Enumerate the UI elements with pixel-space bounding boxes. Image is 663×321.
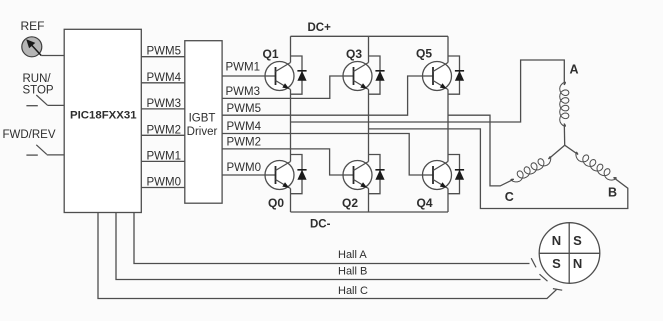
svg-text:PWM2: PWM2 [227, 137, 262, 149]
transistor Q1 [265, 62, 294, 91]
potentiometer REF [21, 19, 45, 57]
wire star point to coil B [565, 145, 578, 154]
wire PWM1 PIC to driver [141, 160, 185, 162]
winding phase A [560, 82, 569, 126]
wire leg 1 emitter bottom [290, 189, 292, 213]
svg-text:Hall B: Hall B [338, 265, 367, 277]
svg-text:Hall C: Hall C [338, 285, 368, 297]
wire PWM4 driver to Q4 gate [222, 134, 422, 176]
wire PWM0 PIC to driver [141, 187, 185, 189]
svg-text:N: N [573, 256, 582, 271]
transistor Q2 [343, 161, 372, 190]
wire leg 1 collector top [290, 36, 292, 62]
svg-text:PWM4: PWM4 [227, 121, 262, 133]
svg-text:S: S [552, 256, 561, 271]
svg-text:Q2: Q2 [342, 196, 358, 210]
rotor magnet (hall target) [539, 223, 600, 284]
wire PWM3 PIC to driver [141, 108, 185, 110]
svg-text:PWM0: PWM0 [227, 162, 262, 174]
wire RUN/STOP to PIC [47, 104, 64, 106]
svg-text:Q0: Q0 [268, 196, 284, 210]
winding phase B [576, 152, 616, 180]
transistor Q3 [343, 62, 372, 91]
switch RUN/STOP [23, 73, 54, 106]
svg-text:PWM4: PWM4 [147, 72, 182, 84]
IGBT driver U1 [185, 41, 222, 204]
DC- rail [291, 211, 449, 213]
svg-text:Q1: Q1 [263, 47, 279, 61]
wire PWM0 driver to Q0 gate [222, 174, 265, 176]
wire leg 3 midsection [447, 90, 449, 162]
svg-text:B: B [608, 186, 617, 200]
wire leg 3 collector top [447, 36, 449, 62]
hall sensor A tick [531, 258, 536, 267]
wire REF to PIC [41, 55, 64, 57]
svg-text:Driver: Driver [187, 126, 218, 138]
svg-text:PWM5: PWM5 [227, 103, 262, 115]
svg-text:PWM3: PWM3 [147, 98, 182, 110]
svg-text:N: N [552, 233, 561, 248]
wire PWM3 driver to Q3 gate [222, 76, 343, 98]
hall sensor B tick [540, 274, 548, 281]
wire Hall B from PIC [116, 213, 541, 280]
wire PWM2 driver to Q2 gate [222, 149, 343, 175]
svg-text:Q5: Q5 [416, 47, 432, 61]
wire PWM5 PIC to driver [141, 56, 185, 58]
svg-text:DC+: DC+ [308, 22, 332, 34]
svg-text:PWM3: PWM3 [226, 86, 261, 98]
DC+ rail [291, 35, 449, 37]
diode D2 [369, 155, 385, 194]
wire leg 3 emitter bottom [447, 189, 449, 213]
wire leg 2 emitter bottom [368, 189, 370, 213]
wire PWM4 PIC to driver [141, 82, 185, 84]
wire leg 2 collector top [368, 36, 370, 62]
svg-text:DC-: DC- [310, 219, 331, 231]
wire Hall C from PIC [98, 213, 557, 299]
svg-text:REF: REF [21, 19, 45, 33]
svg-text:Hall A: Hall A [338, 249, 367, 261]
svg-text:FWD/REV: FWD/REV [3, 129, 56, 141]
svg-text:PWM5: PWM5 [147, 46, 182, 58]
wire PWM5 driver to Q5 gate [222, 76, 422, 115]
switch FWD/REV [3, 129, 56, 155]
diode D4 [448, 155, 464, 194]
diode D3 [369, 56, 385, 94]
transistor Q5 [423, 62, 452, 91]
svg-text:S: S [573, 233, 582, 248]
svg-text:PWM2: PWM2 [147, 124, 182, 136]
diode D1 [291, 56, 307, 94]
winding phase C [511, 157, 551, 182]
hall sensor C tick [553, 289, 562, 291]
diode D5 [448, 56, 464, 94]
microcontroller PIC18FXX31 [64, 29, 141, 212]
svg-text:RUN/: RUN/ [23, 73, 52, 85]
svg-text:Q3: Q3 [346, 47, 362, 61]
svg-text:STOP: STOP [23, 85, 54, 97]
wire PWM2 PIC to driver [141, 134, 185, 136]
svg-text:PIC18FXX31: PIC18FXX31 [70, 110, 137, 122]
transistor Q0 [265, 161, 294, 190]
svg-text:A: A [570, 63, 579, 77]
svg-text:PWM0: PWM0 [147, 177, 182, 189]
svg-text:Q4: Q4 [417, 196, 433, 210]
svg-text:PWM1: PWM1 [147, 150, 182, 162]
wire coil A to star point [563, 124, 565, 146]
wire phase B from leg2 to coil B [369, 129, 628, 209]
wire leg 1 midsection [290, 90, 292, 162]
wire PWM1 driver to Q1 gate [222, 75, 265, 77]
wire FWD/REV to PIC [47, 154, 64, 156]
wire phase A from leg1 to coil A [291, 60, 565, 122]
svg-text:IGBT: IGBT [189, 113, 216, 125]
wire phase C from leg3 to coil C [448, 115, 514, 186]
svg-text:C: C [505, 190, 514, 204]
diode D0 [291, 155, 307, 194]
wire Hall A from PIC [134, 213, 530, 264]
svg-text:PWM1: PWM1 [226, 62, 261, 74]
transistor Q4 [423, 161, 452, 190]
wire star point to coil C [549, 145, 565, 159]
wire leg 2 midsection [368, 90, 370, 162]
